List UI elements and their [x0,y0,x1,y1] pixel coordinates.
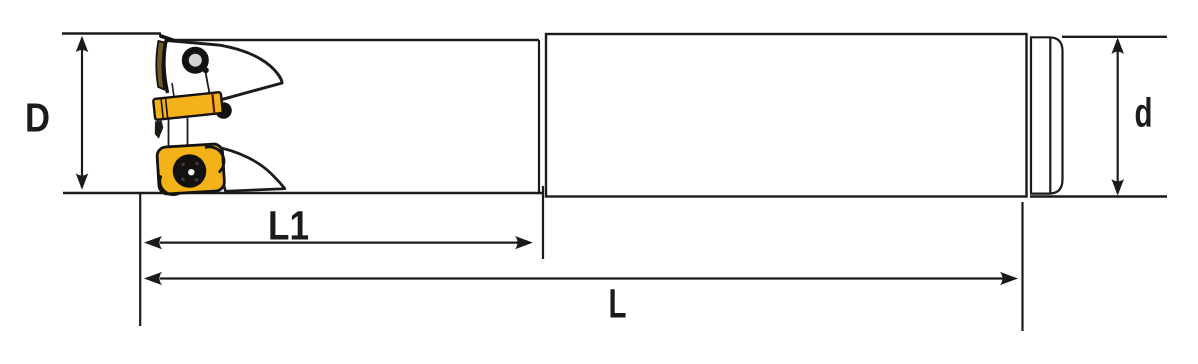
cutting section bottom edge with D extension [63,192,543,194]
L1 right extension line [542,186,544,259]
top screw ring [185,50,205,70]
edge-on insert sliver (olive) [156,41,165,90]
svg-text:d: d [1135,90,1153,136]
cutting section end line [538,40,540,193]
L1 dimension arrow [160,242,519,244]
screw stem lines above middle insert [172,83,174,98]
end cap [1031,37,1063,193]
square insert (bottom) [157,144,225,195]
head front edge curve [164,40,168,94]
insert seat wedge (dark) [155,121,164,139]
cutting section top edge [167,39,539,41]
d top extension line [1062,36,1167,38]
square insert corner arc (bottom-left) [160,176,180,195]
screw torx dots [181,163,185,167]
middle insert (yellow bar) [153,92,223,120]
d dimension arrow [1117,40,1119,193]
svg-text:D: D [25,95,50,141]
d bottom extension line [1030,195,1167,197]
square insert corner arc (top-right) [205,147,224,173]
upper chip pocket beak fill [166,41,282,100]
shank outline [546,34,1027,197]
L dimension arrow [160,277,1004,279]
L1 left extension line (shared with L) [139,194,141,326]
end cap inner line [1049,37,1051,193]
head corner wedge [161,36,173,40]
screw center dot [188,169,194,175]
middle insert end screw (dark circle) [215,102,232,119]
svg-text:L1: L1 [268,203,309,249]
L right extension line [1021,202,1023,331]
D top extension line [62,32,161,34]
top screw ring lobe [203,67,209,73]
upper chip pocket beak outline [167,41,282,100]
chip pocket fin (lower) [212,146,285,191]
D dimension arrow [81,38,83,188]
square insert center screw [173,154,207,188]
clamp lines below middle insert [168,119,170,147]
svg-text:L: L [609,281,627,327]
